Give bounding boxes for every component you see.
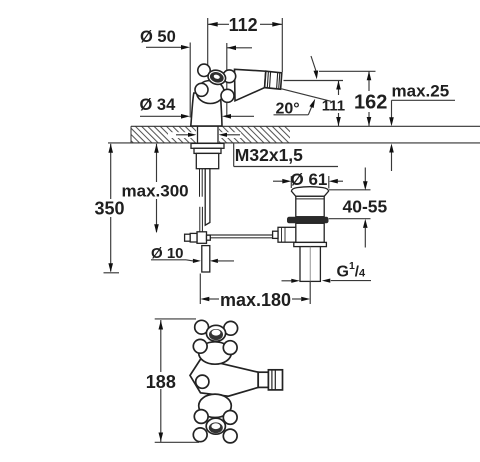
svg-text:Ø 34: Ø 34 xyxy=(140,96,177,114)
svg-text:111: 111 xyxy=(322,98,345,115)
svg-text:Ø 50: Ø 50 xyxy=(140,28,176,46)
svg-text:40-55: 40-55 xyxy=(343,197,388,217)
svg-text:max.300: max.300 xyxy=(122,182,189,201)
svg-text:Ø 10: Ø 10 xyxy=(151,245,184,262)
svg-text:162: 162 xyxy=(354,92,387,114)
svg-text:350: 350 xyxy=(95,199,125,219)
svg-text:188: 188 xyxy=(146,372,176,392)
svg-text:Ø 61: Ø 61 xyxy=(291,170,328,189)
svg-text:max.180: max.180 xyxy=(220,290,291,310)
svg-text:G1/4: G1/4 xyxy=(337,260,366,281)
svg-text:112: 112 xyxy=(229,15,258,35)
svg-text:20°: 20° xyxy=(276,101,300,118)
svg-text:M32x1,5: M32x1,5 xyxy=(235,145,303,165)
svg-text:max.25: max.25 xyxy=(392,82,450,101)
